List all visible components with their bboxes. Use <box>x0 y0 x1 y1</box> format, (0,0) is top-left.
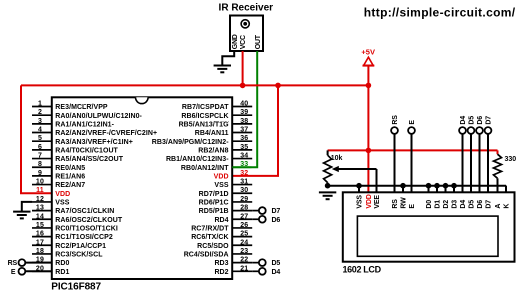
svg-text:E: E <box>11 269 16 276</box>
svg-text:RS: RS <box>392 115 399 125</box>
svg-text:12: 12 <box>36 196 44 203</box>
svg-text:VSS: VSS <box>357 195 364 209</box>
svg-text:D4: D4 <box>272 269 281 276</box>
svg-text:VDD: VDD <box>366 194 373 208</box>
svg-text:D2: D2 <box>443 200 450 209</box>
PIC pin 25 stub <box>232 236 252 238</box>
PIC pin 12 stub <box>32 201 52 203</box>
svg-text:18: 18 <box>36 248 44 255</box>
svg-text:2: 2 <box>38 109 42 116</box>
svg-text:RA6/OSC2/CLKOUT: RA6/OSC2/CLKOUT <box>55 217 123 224</box>
PIC pin 29 stub <box>232 201 252 203</box>
svg-text:7: 7 <box>38 153 42 160</box>
svg-text:34: 34 <box>240 153 248 160</box>
svg-text:RD2: RD2 <box>214 269 228 276</box>
svg-text:D4: D4 <box>460 200 467 209</box>
svg-text:GND: GND <box>232 34 239 49</box>
svg-text:D7: D7 <box>486 200 493 209</box>
ground (pot) <box>319 191 336 193</box>
svg-text:OUT: OUT <box>255 34 262 49</box>
LCD pin RW <box>402 186 404 193</box>
svg-text:RC5/SDO: RC5/SDO <box>197 243 229 250</box>
PIC pin 18 stub <box>32 253 52 255</box>
wire +5V down to rail2 (red) <box>367 85 369 150</box>
svg-text:A: A <box>495 204 502 209</box>
PIC pin 2 stub <box>32 114 52 116</box>
svg-text:VDD: VDD <box>55 191 70 198</box>
PIC pin 3 stub <box>32 123 52 125</box>
svg-text:RS: RS <box>392 199 399 209</box>
svg-text:330: 330 <box>505 156 517 163</box>
PIC pin 17 stub <box>32 244 52 246</box>
LCD pin D3 <box>453 186 455 193</box>
svg-text:31: 31 <box>240 179 248 186</box>
PIC pin 22 stub <box>232 262 252 264</box>
PIC pin 19 stub <box>32 262 52 264</box>
PIC pin 14 stub <box>32 218 52 220</box>
PIC pin 28 stub <box>232 210 252 212</box>
wire +5V rail (red, y=85) <box>21 84 368 86</box>
PIC pin 5 stub <box>32 140 52 142</box>
wire RS to LCD pin <box>394 134 396 192</box>
svg-text:RA5/AN4/SS/C2OUT: RA5/AN4/SS/C2OUT <box>55 156 123 163</box>
PIC pin 34 stub <box>232 158 252 160</box>
svg-text:8: 8 <box>38 161 42 168</box>
svg-text:4: 4 <box>38 127 42 134</box>
svg-text:RC2/P1A/CCP1: RC2/P1A/CCP1 <box>55 243 106 250</box>
svg-text:RE2/AN7: RE2/AN7 <box>55 182 85 189</box>
svg-text:D7: D7 <box>486 116 493 125</box>
PIC pin 31 stub <box>232 184 252 186</box>
PIC pin 20 stub <box>32 270 52 272</box>
wire D6 to LCD pin <box>479 134 481 192</box>
resistor R1 330 <box>497 150 499 154</box>
svg-text:40: 40 <box>240 101 248 108</box>
svg-text:33: 33 <box>240 161 248 168</box>
svg-text:RE1/AN6: RE1/AN6 <box>55 173 85 180</box>
node junction ground/D3 <box>451 183 457 189</box>
node junction ground/D1 <box>434 183 440 189</box>
svg-text:D6: D6 <box>272 217 281 224</box>
svg-text:15: 15 <box>36 222 44 229</box>
LCD pin D1 <box>436 186 438 193</box>
LCD pin D5 <box>470 186 472 193</box>
LCD pin A <box>497 186 499 193</box>
node junction ground/VSS <box>356 183 362 189</box>
svg-text:RB6/ICSPCLK: RB6/ICSPCLK <box>181 113 228 120</box>
PIC pin 33 stub <box>232 166 251 168</box>
svg-text:RB2/AN8: RB2/AN8 <box>198 147 228 154</box>
PIC pin 16 stub <box>32 236 52 238</box>
wire rail to PIC VDD pin 32 (red) <box>232 85 278 175</box>
wire E to LCD pin <box>411 134 413 192</box>
wire rail to PIC VDD pin 11 (red) <box>21 85 52 193</box>
wire IR OUT to PIC RB0 pin 33 (green) <box>232 51 257 167</box>
svg-text:28: 28 <box>240 205 248 212</box>
svg-text:1: 1 <box>38 101 42 108</box>
svg-text:RB3/AN9/PGM/C12IN2-: RB3/AN9/PGM/C12IN2- <box>152 139 229 146</box>
svg-text:RC3/SCK/SCL: RC3/SCK/SCL <box>55 252 103 259</box>
wire IR GND to ground <box>222 51 234 66</box>
svg-text:RD4: RD4 <box>214 217 228 224</box>
terminal D4 at pin 21 <box>252 270 259 272</box>
svg-text:RC1/T1OSI/CCP2: RC1/T1OSI/CCP2 <box>55 234 113 241</box>
PIC notch <box>136 97 149 103</box>
svg-text:25: 25 <box>240 231 248 238</box>
svg-text:RE0/AN5: RE0/AN5 <box>55 165 85 172</box>
svg-text:RB1/AN10/C12IN3-: RB1/AN10/C12IN3- <box>166 156 229 163</box>
svg-text:RD3: RD3 <box>214 260 228 267</box>
PIC pin 26 stub <box>232 227 252 229</box>
LCD pin D2 <box>445 186 447 193</box>
svg-text:9: 9 <box>38 170 42 177</box>
ground (PIC pin 12) <box>13 211 30 213</box>
svg-text:K: K <box>504 204 511 209</box>
1602 LCD body <box>343 192 515 261</box>
svg-text:D1: D1 <box>435 200 442 209</box>
PIC pin 36 stub <box>232 140 252 142</box>
svg-text:5: 5 <box>38 135 42 142</box>
wire LCD VDD drop (red) <box>367 150 369 192</box>
potentiometer RV1 10k <box>327 150 329 155</box>
svg-text:29: 29 <box>240 196 248 203</box>
PIC pin 4 stub <box>32 132 52 134</box>
LCD pin E <box>411 186 413 193</box>
svg-text:RD1: RD1 <box>55 269 69 276</box>
LCD pin D0 <box>428 186 430 193</box>
svg-text:32: 32 <box>240 170 248 177</box>
svg-text:RC7/RX/DT: RC7/RX/DT <box>191 226 229 233</box>
node junction pin32 drop/rail <box>275 83 281 89</box>
svg-text:RA7/OSC1/CLKIN: RA7/OSC1/CLKIN <box>55 208 114 215</box>
svg-text:PIC16F887: PIC16F887 <box>51 281 101 292</box>
wire D7 to LCD pin <box>487 134 489 192</box>
node junction ground/RW <box>400 183 406 189</box>
PIC pin 6 stub <box>32 149 52 151</box>
svg-text:D6: D6 <box>477 200 484 209</box>
svg-text:VEE: VEE <box>374 195 381 209</box>
PIC pin 13 stub <box>32 210 52 212</box>
svg-text:RA4/T0CKI/C1OUT: RA4/T0CKI/C1OUT <box>55 147 118 154</box>
svg-text:10k: 10k <box>331 155 343 162</box>
svg-text:RS: RS <box>8 260 18 267</box>
svg-text:E: E <box>409 120 416 125</box>
PIC pin 23 stub <box>232 253 252 255</box>
svg-text:24: 24 <box>240 239 248 246</box>
svg-text:RA0/AN0/ULPWU/C12IN0-: RA0/AN0/ULPWU/C12IN0- <box>55 113 142 120</box>
node junction ground/D2 <box>443 183 449 189</box>
PIC pin 21 stub <box>232 270 252 272</box>
PIC pin 37 stub <box>232 132 252 134</box>
PIC pin 40 stub <box>232 106 252 108</box>
potentiometer wiper arrow <box>338 168 377 170</box>
node pot/ground junction <box>325 183 331 189</box>
PIC pin 27 stub <box>232 218 252 220</box>
svg-text:VDD: VDD <box>214 173 229 180</box>
PIC pin 8 stub <box>32 166 52 168</box>
svg-text:D5: D5 <box>469 200 476 209</box>
svg-text:6: 6 <box>38 144 42 151</box>
terminal D7 at pin 28 <box>252 210 259 212</box>
LCD pin K <box>505 186 507 193</box>
LCD pin D6 <box>479 186 481 193</box>
svg-text:11: 11 <box>36 187 44 194</box>
svg-text:RA2/AN2/VREF-/CVREF/C2IN+: RA2/AN2/VREF-/CVREF/C2IN+ <box>55 130 157 137</box>
LCD pin D7 <box>487 186 489 193</box>
svg-text:26: 26 <box>240 222 248 229</box>
svg-text:RA3/AN3/VREF+/C1IN+: RA3/AN3/VREF+/C1IN+ <box>55 139 133 146</box>
wire wiper to LCD VEE <box>376 169 378 192</box>
svg-text:RE3/MCLR/VPP: RE3/MCLR/VPP <box>55 104 108 111</box>
wire PIC VSS pin12 to ground <box>22 202 32 212</box>
svg-text:RD6/P1C: RD6/P1C <box>199 200 229 207</box>
PIC pin 15 stub <box>32 227 52 229</box>
svg-text:RD7/P1D: RD7/P1D <box>199 191 229 198</box>
node junction ground/D0 <box>426 183 432 189</box>
svg-text:D5: D5 <box>272 260 281 267</box>
svg-text:RC6/TX/CK: RC6/TX/CK <box>191 234 228 241</box>
svg-text:23: 23 <box>240 248 248 255</box>
IC U1 PIC16F887 body <box>52 97 232 279</box>
svg-text:D3: D3 <box>452 200 459 209</box>
node junction rail2/VDD drop <box>366 148 372 154</box>
svg-text:VSS: VSS <box>55 200 69 207</box>
svg-text:VCC: VCC <box>240 35 247 49</box>
PIC pin 1 stub <box>32 106 52 108</box>
svg-text:17: 17 <box>36 239 44 246</box>
PIC pin 24 stub <box>232 244 252 246</box>
svg-text:1602 LCD: 1602 LCD <box>343 265 382 275</box>
svg-text:21: 21 <box>240 265 248 272</box>
svg-text:38: 38 <box>240 118 248 125</box>
svg-text:RC4/SDI/SDA: RC4/SDI/SDA <box>184 252 229 259</box>
svg-text:RC0/T1OSO/T1CKI: RC0/T1OSO/T1CKI <box>55 226 118 233</box>
PIC pin 30 stub <box>232 192 252 194</box>
svg-text:RB7/ICSPDAT: RB7/ICSPDAT <box>182 104 229 111</box>
LCD pin VEE <box>376 186 378 193</box>
PIC pin 35 stub <box>232 149 252 151</box>
svg-text:36: 36 <box>240 135 248 142</box>
svg-text:10: 10 <box>36 179 44 186</box>
svg-text:RB4/AN11: RB4/AN11 <box>195 130 229 137</box>
svg-text:D0: D0 <box>426 200 433 209</box>
PIC pin 38 stub <box>232 123 252 125</box>
svg-text:RD5/P1B: RD5/P1B <box>199 208 229 215</box>
svg-text:D7: D7 <box>272 208 281 215</box>
PIC pin 10 stub <box>32 184 52 186</box>
svg-text:RB5/AN13/T1G: RB5/AN13/T1G <box>179 121 230 128</box>
svg-text:http://simple-circuit.com/: http://simple-circuit.com/ <box>364 6 516 20</box>
node junction +5V/rail <box>366 83 372 89</box>
terminal D6 at pin 27 <box>252 218 259 220</box>
svg-text:RB0/AN12/INT: RB0/AN12/INT <box>181 165 229 172</box>
svg-text:37: 37 <box>240 127 248 134</box>
svg-text:14: 14 <box>36 213 44 220</box>
svg-text:IR Receiver: IR Receiver <box>219 2 274 13</box>
ground (IR receiver) <box>214 65 231 67</box>
LCD pin RS <box>394 186 396 193</box>
svg-text:D5: D5 <box>469 116 476 125</box>
PIC pin 9 stub <box>32 175 52 177</box>
LCD pin VSS <box>358 186 360 193</box>
PIC pin 39 stub <box>232 114 252 116</box>
svg-text:E: E <box>409 204 416 209</box>
svg-text:RD0: RD0 <box>55 260 69 267</box>
wire D5 to LCD pin <box>470 134 472 192</box>
svg-text:3: 3 <box>38 118 42 125</box>
wire IR VCC to +5V rail (red) <box>242 51 244 85</box>
svg-text:22: 22 <box>240 257 248 264</box>
svg-text:RA1/AN1/C12IN1-: RA1/AN1/C12IN1- <box>55 121 114 128</box>
terminal D5 at pin 22 <box>252 262 259 264</box>
svg-text:16: 16 <box>36 231 44 238</box>
svg-text:13: 13 <box>36 205 44 212</box>
wire ground bus (y=186) <box>328 185 506 187</box>
svg-text:D6: D6 <box>477 116 484 125</box>
node junction VCC/rail <box>240 83 246 89</box>
svg-text:RW: RW <box>401 197 408 209</box>
wire D4 to LCD pin <box>462 134 464 192</box>
svg-text:35: 35 <box>240 144 248 151</box>
svg-text:+5V: +5V <box>361 48 375 57</box>
svg-text:D4: D4 <box>460 116 467 125</box>
svg-text:27: 27 <box>240 213 248 220</box>
svg-text:30: 30 <box>240 187 248 194</box>
IR receiver U2 body <box>230 16 263 52</box>
PIC pin 7 stub <box>32 158 52 160</box>
svg-text:VSS: VSS <box>214 182 228 189</box>
svg-text:39: 39 <box>240 109 248 116</box>
LCD pin D4 <box>462 186 464 193</box>
wire rail2 (red, y=150) pot top to 330 <box>328 149 498 151</box>
